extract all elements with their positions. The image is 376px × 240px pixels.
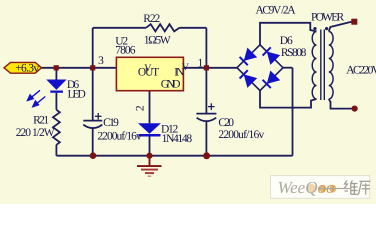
svg-text:OUT: OUT bbox=[138, 67, 159, 79]
svg-text:D6: D6 bbox=[280, 35, 293, 47]
svg-text:2200uf/16v: 2200uf/16v bbox=[97, 130, 142, 142]
svg-text:2200uf/16v: 2200uf/16v bbox=[218, 129, 264, 141]
svg-text:1: 1 bbox=[198, 57, 204, 69]
svg-text:RS808: RS808 bbox=[281, 47, 307, 59]
svg-text:LED: LED bbox=[68, 88, 86, 100]
svg-text:IN: IN bbox=[174, 67, 185, 79]
svg-text:C20: C20 bbox=[218, 117, 234, 129]
svg-text:AC9V /2A: AC9V /2A bbox=[256, 5, 297, 17]
svg-text:7806: 7806 bbox=[115, 45, 135, 57]
svg-text:POWER: POWER bbox=[311, 12, 345, 24]
svg-text:GND: GND bbox=[161, 79, 181, 91]
svg-text:1N4148: 1N4148 bbox=[162, 133, 193, 145]
svg-text:+6.3v: +6.3v bbox=[15, 63, 39, 75]
svg-text:AC220V: AC220V bbox=[346, 64, 376, 76]
svg-text:C19: C19 bbox=[103, 117, 119, 129]
svg-text:WeeQoo: WeeQoo bbox=[278, 178, 335, 197]
svg-text:1Ω5W: 1Ω5W bbox=[144, 35, 171, 47]
svg-text:2: 2 bbox=[135, 105, 147, 111]
svg-text:220 1/2W: 220 1/2W bbox=[16, 127, 55, 139]
svg-text:R21: R21 bbox=[33, 114, 49, 126]
svg-text:R22: R22 bbox=[143, 13, 160, 25]
svg-text:3: 3 bbox=[98, 55, 104, 67]
